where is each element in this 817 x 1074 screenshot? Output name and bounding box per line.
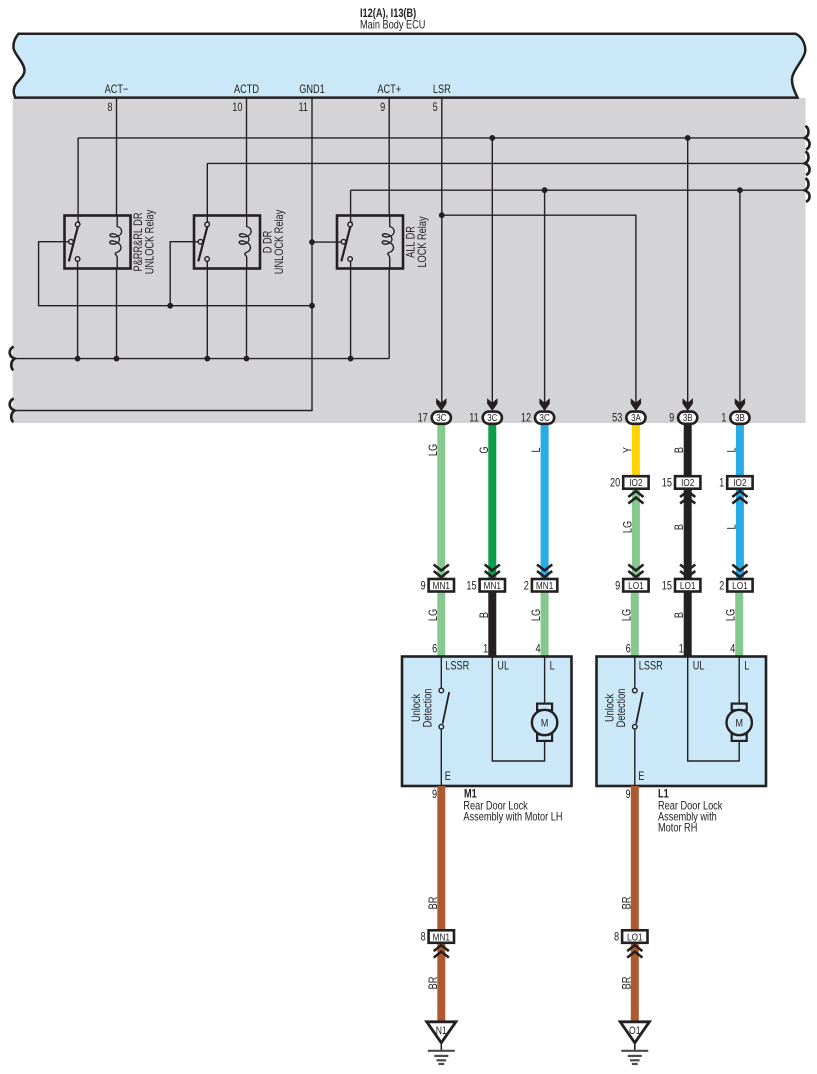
svg-text:3C: 3C bbox=[487, 412, 498, 423]
connector 3A pin 53 bbox=[626, 412, 645, 424]
wire BR from L1 pin9 to LO1-8 bbox=[631, 786, 639, 929]
svg-text:Motor RH: Motor RH bbox=[658, 823, 697, 835]
svg-text:IO2: IO2 bbox=[681, 477, 694, 488]
label Unlock Detection (L1) bbox=[604, 688, 628, 727]
connector IO2 pin 15 bbox=[675, 476, 700, 489]
svg-text:1: 1 bbox=[721, 413, 726, 425]
svg-text:9: 9 bbox=[432, 789, 437, 801]
junction R3 switch / rail bbox=[348, 356, 354, 362]
label for relay P&RR&RL DR UNLOCK Relay bbox=[133, 209, 157, 274]
in-line connector symbol (up) below IO2-15 bbox=[680, 491, 695, 504]
svg-text:8: 8 bbox=[614, 932, 619, 944]
svg-text:LOCK Relay: LOCK Relay bbox=[417, 216, 429, 268]
svg-text:Unlock: Unlock bbox=[411, 693, 423, 722]
svg-text:15: 15 bbox=[662, 580, 672, 592]
svg-text:2: 2 bbox=[524, 580, 529, 592]
arrowhead into connector 3C bbox=[487, 398, 497, 411]
svg-text:UL: UL bbox=[497, 661, 509, 673]
svg-text:17: 17 bbox=[418, 413, 428, 425]
svg-text:UL: UL bbox=[693, 661, 705, 673]
motor M of L1 bbox=[727, 704, 752, 741]
in-line connector symbol (up) below LO1-8 bbox=[627, 945, 642, 958]
ground point O1 bbox=[620, 1022, 649, 1064]
continuation mark at right edge line2 bbox=[805, 151, 810, 175]
continuation mark bottom rail at left edge bbox=[10, 347, 15, 371]
svg-text:L: L bbox=[727, 447, 739, 452]
connector MN1 pin 2 bbox=[532, 579, 557, 592]
svg-text:3A: 3A bbox=[631, 412, 641, 423]
svg-text:1: 1 bbox=[679, 644, 684, 656]
arrowhead into connector 3B bbox=[683, 398, 693, 411]
continuation mark at right edge line3 bbox=[805, 178, 810, 202]
wire UL terminal to motor of M1 bbox=[492, 657, 544, 762]
svg-text:LO1: LO1 bbox=[680, 580, 696, 591]
junction ground rail / GND1 bbox=[309, 303, 315, 309]
junction GND1 / R3 common branch bbox=[309, 239, 315, 245]
connector LO1 pin 15 bbox=[675, 579, 700, 592]
connector 3C pin 12 bbox=[535, 412, 554, 424]
wire L terminal to motor of M1 bbox=[544, 657, 546, 705]
svg-text:L: L bbox=[744, 661, 749, 673]
junction R2 switch / rail bbox=[204, 356, 210, 362]
svg-text:15: 15 bbox=[466, 580, 476, 592]
in-line connector symbol (up) below MN1-8 bbox=[434, 945, 449, 958]
svg-text:ACT+: ACT+ bbox=[377, 84, 401, 96]
wire L from IO2-1 to LO1-2 bbox=[736, 489, 744, 579]
wire LSR pin5 down to connector 3C pin17 bbox=[441, 98, 443, 410]
wire color label LG bbox=[428, 444, 440, 456]
wire R1 coil bottom to rail bbox=[116, 269, 118, 359]
svg-text:L: L bbox=[550, 661, 555, 673]
svg-text:UNLOCK Relay: UNLOCK Relay bbox=[144, 209, 156, 274]
wire color label B bbox=[674, 524, 686, 530]
svg-text:9: 9 bbox=[615, 580, 620, 592]
wire color label B bbox=[479, 612, 491, 618]
junction R1 switch / rail bbox=[75, 356, 81, 362]
svg-text:MN1: MN1 bbox=[433, 931, 450, 942]
svg-text:LO1: LO1 bbox=[628, 580, 644, 591]
continuation mark at right edge line1 bbox=[805, 126, 810, 150]
wire L from 3B-1 to IO2-1 bbox=[736, 424, 744, 476]
svg-text:LSR: LSR bbox=[433, 84, 451, 96]
wire line1 down to connector 3B pin9 bbox=[687, 138, 689, 410]
svg-text:IO2: IO2 bbox=[733, 477, 746, 488]
in-line connector symbol (down) above LO1-2 bbox=[732, 565, 747, 578]
connector MN1 pin 9 bbox=[429, 579, 454, 592]
wire line1 down to connector 3C pin11 bbox=[491, 138, 493, 410]
junction R1 coil / rail bbox=[114, 356, 120, 362]
in-line connector symbol (down) above LO1-15 bbox=[680, 565, 695, 578]
wire color label B bbox=[674, 447, 686, 453]
wire color label LG bbox=[726, 609, 738, 621]
svg-text:IO2: IO2 bbox=[629, 477, 642, 488]
wire line3 down to connector 3B pin1 bbox=[739, 190, 741, 410]
wire B from 3B-9 to IO2-15 bbox=[684, 424, 692, 476]
wire R3 coil bottom to rail end bbox=[388, 269, 390, 359]
svg-text:LG: LG bbox=[621, 609, 633, 621]
svg-text:Assembly with Motor LH: Assembly with Motor LH bbox=[463, 812, 562, 824]
continuation mark GND1 wire at left edge bbox=[10, 398, 15, 422]
in-line connector symbol (down) above MN1-2 bbox=[537, 565, 552, 578]
in-line connector symbol (down) above MN1-15 bbox=[485, 565, 500, 578]
svg-text:6: 6 bbox=[626, 644, 631, 656]
wire GND1 branch to R3 common bbox=[312, 241, 342, 243]
svg-text:Main Body ECU: Main Body ECU bbox=[360, 20, 425, 32]
svg-text:G: G bbox=[479, 446, 491, 453]
svg-text:4: 4 bbox=[535, 644, 540, 656]
svg-text:E: E bbox=[638, 771, 644, 783]
wire color label B bbox=[674, 612, 686, 618]
svg-text:M: M bbox=[541, 718, 548, 730]
arrowhead into connector 3C bbox=[539, 398, 549, 411]
wire LG from MN1-9 to M1 pin6 bbox=[437, 592, 445, 658]
in-line connector symbol (down) above MN1-9 bbox=[434, 565, 449, 578]
connector MN1 pin 15 bbox=[480, 579, 505, 592]
wire ACTD pin10 down to relay R2 coil bbox=[246, 98, 248, 216]
junction LSR branch bbox=[439, 212, 445, 218]
in-line connector symbol (up) below IO2-20 bbox=[628, 491, 643, 504]
svg-text:3B: 3B bbox=[735, 412, 745, 423]
wire color label L bbox=[727, 524, 739, 529]
connector LO1 pin 8 bbox=[622, 930, 647, 943]
svg-text:9: 9 bbox=[625, 789, 630, 801]
wire R3 switch bottom contact to rail bbox=[350, 261, 352, 359]
wire color label G bbox=[479, 446, 491, 453]
wire ACT- pin8 down to relay R1 coil bbox=[116, 98, 118, 216]
wire LSR branch to connector 3A pin53 bbox=[442, 215, 636, 410]
svg-text:LO1: LO1 bbox=[732, 580, 748, 591]
svg-text:L: L bbox=[727, 524, 739, 529]
wire ACT+ pin9 down to relay R3 coil bbox=[388, 98, 390, 216]
ground point N1 bbox=[427, 1022, 456, 1064]
svg-text:O1: O1 bbox=[629, 1025, 641, 1037]
wire B from IO2-15 to LO1-15 bbox=[684, 489, 692, 579]
unlock detection switch of L1 bbox=[633, 657, 643, 787]
wire BR from MN1-8 to ground N1 bbox=[437, 942, 445, 1022]
svg-text:M1: M1 bbox=[464, 789, 477, 801]
wire color label BR bbox=[428, 976, 440, 989]
door lock assembly L1 body bbox=[597, 657, 767, 787]
svg-text:LG: LG bbox=[531, 609, 543, 621]
svg-text:LG: LG bbox=[623, 521, 635, 533]
connector IO2 pin 20 bbox=[623, 476, 648, 489]
wire color label BR bbox=[621, 896, 633, 909]
svg-text:Unlock: Unlock bbox=[604, 693, 616, 722]
svg-text:B: B bbox=[674, 524, 686, 530]
junction line3 / pin1 drop bbox=[737, 187, 743, 193]
motor M of M1 bbox=[532, 704, 557, 741]
svg-text:8: 8 bbox=[420, 932, 425, 944]
unlock detection switch of M1 bbox=[439, 657, 449, 787]
wire R3 switch top contact riser bbox=[350, 190, 352, 222]
door lock assembly M1 body bbox=[402, 657, 572, 787]
connector LO1 pin 9 bbox=[623, 579, 648, 592]
relay D DR UNLOCK Relay bbox=[194, 216, 260, 269]
wire L terminal to motor of L1 bbox=[738, 657, 740, 705]
label Unlock Detection (M1) bbox=[411, 688, 435, 727]
svg-text:ACTD: ACTD bbox=[234, 84, 259, 96]
junction line1 / pin11 drop bbox=[489, 135, 495, 141]
wire color label L bbox=[727, 447, 739, 452]
svg-text:D DR: D DR bbox=[262, 230, 274, 253]
svg-text:P&RR&RL DR: P&RR&RL DR bbox=[133, 212, 145, 271]
svg-text:BR: BR bbox=[621, 896, 633, 909]
in-line connector symbol (up) below IO2-1 bbox=[732, 491, 747, 504]
svg-text:20: 20 bbox=[610, 478, 620, 490]
svg-text:11: 11 bbox=[469, 413, 479, 425]
svg-text:L: L bbox=[531, 447, 543, 452]
wire R1 common to ground rail bbox=[39, 242, 312, 306]
svg-text:3C: 3C bbox=[540, 412, 551, 423]
svg-text:B: B bbox=[674, 447, 686, 453]
wire L from 3C-12 to MN1-2 bbox=[541, 424, 549, 579]
svg-text:Detection: Detection bbox=[422, 688, 434, 727]
wire GND1 pin11 down and left to edge bbox=[13, 98, 312, 411]
label for relay D DR UNLOCK Relay bbox=[262, 209, 286, 274]
node internal circuitry shading (Main Body ECU internals) bbox=[13, 98, 806, 423]
svg-text:9: 9 bbox=[669, 413, 674, 425]
wire BR from M1 pin9 to MN1-8 bbox=[437, 786, 445, 929]
wire R1 switch bottom contact to rail bbox=[77, 261, 79, 359]
svg-text:11: 11 bbox=[298, 102, 308, 114]
svg-text:LG: LG bbox=[428, 609, 440, 621]
wire LG from 3C-17 to MN1-9 bbox=[437, 424, 445, 579]
wire R2 switch top contact riser bbox=[206, 163, 208, 222]
connector 3B pin 9 bbox=[678, 412, 697, 424]
svg-text:L1: L1 bbox=[658, 789, 669, 801]
junction line3 / pin12 drop bbox=[542, 187, 548, 193]
svg-text:MN1: MN1 bbox=[536, 580, 553, 591]
wire R2 coil bottom to rail bbox=[246, 269, 248, 359]
svg-text:9: 9 bbox=[420, 580, 425, 592]
svg-text:6: 6 bbox=[432, 644, 437, 656]
connector 3C pin 17 bbox=[432, 412, 451, 424]
wire horizontal net from R3 switch to right edge bbox=[351, 189, 806, 191]
svg-text:M: M bbox=[735, 718, 742, 730]
wire LG from IO2-20 to LO1-9 bbox=[632, 489, 640, 579]
wire color label Y bbox=[623, 447, 635, 453]
svg-text:UNLOCK Relay: UNLOCK Relay bbox=[274, 209, 286, 274]
svg-text:I12(A), I13(B): I12(A), I13(B) bbox=[360, 8, 416, 20]
wire R2 switch bottom contact to rail bbox=[206, 261, 208, 359]
label for relay ALL DR LOCK Relay bbox=[405, 216, 429, 268]
svg-text:2: 2 bbox=[719, 580, 724, 592]
connector MN1 pin 8 bbox=[429, 930, 454, 943]
wire bottom supply rail bbox=[13, 358, 390, 360]
wire color label L bbox=[531, 447, 543, 452]
svg-text:GND1: GND1 bbox=[299, 84, 325, 96]
wire horizontal net from R1 switch to right edge bbox=[78, 137, 805, 139]
svg-text:15: 15 bbox=[662, 478, 672, 490]
svg-text:1: 1 bbox=[483, 644, 488, 656]
in-line connector symbol (down) above LO1-9 bbox=[628, 565, 643, 578]
svg-text:53: 53 bbox=[612, 413, 622, 425]
svg-text:3C: 3C bbox=[436, 412, 447, 423]
arrowhead into connector 3B bbox=[735, 398, 745, 411]
svg-text:B: B bbox=[674, 612, 686, 618]
svg-text:1: 1 bbox=[719, 478, 724, 490]
svg-text:LG: LG bbox=[428, 444, 440, 456]
wire B from MN1-15 to M1 pin1 bbox=[488, 592, 496, 658]
connector 3C pin 11 bbox=[483, 412, 502, 424]
svg-text:ACT−: ACT− bbox=[105, 84, 129, 96]
connector IO2 pin 1 bbox=[727, 476, 752, 489]
svg-text:B: B bbox=[479, 612, 491, 618]
arrowhead into connector 3C bbox=[436, 398, 446, 411]
wire G from 3C-11 to MN1-15 bbox=[488, 424, 496, 579]
relay ALL DR LOCK Relay bbox=[337, 216, 403, 269]
arrowhead into connector 3A bbox=[631, 398, 641, 411]
wire color label BR bbox=[428, 896, 440, 909]
svg-text:12: 12 bbox=[521, 413, 531, 425]
wire BR from LO1-8 to ground O1 bbox=[631, 942, 639, 1022]
wire LG from LO1-9 to L1 pin6 bbox=[631, 592, 639, 658]
svg-text:Detection: Detection bbox=[616, 688, 628, 727]
wire horizontal net from R2 switch to right edge bbox=[207, 162, 805, 164]
svg-text:9: 9 bbox=[380, 102, 385, 114]
svg-text:Y: Y bbox=[623, 447, 635, 453]
wire color label LG bbox=[623, 521, 635, 533]
wire R2 common drop to ground rail bbox=[170, 242, 199, 306]
svg-text:E: E bbox=[445, 771, 451, 783]
connector 3B pin 1 bbox=[730, 412, 749, 424]
svg-text:10: 10 bbox=[232, 102, 242, 114]
svg-text:LG: LG bbox=[726, 609, 738, 621]
svg-text:LSSR: LSSR bbox=[445, 661, 469, 673]
wire UL terminal to motor of L1 bbox=[688, 657, 740, 762]
wire Y from 3A-53 to IO2-20 bbox=[632, 424, 640, 476]
svg-text:5: 5 bbox=[433, 102, 438, 114]
wire B from LO1-15 to L1 pin1 bbox=[684, 592, 692, 658]
svg-text:8: 8 bbox=[107, 102, 112, 114]
svg-text:MN1: MN1 bbox=[484, 580, 501, 591]
wire R1 switch top contact riser bbox=[77, 138, 79, 222]
svg-text:MN1: MN1 bbox=[433, 580, 450, 591]
junction R2 common / ground rail bbox=[167, 303, 173, 309]
wire color label LG bbox=[621, 609, 633, 621]
svg-text:BR: BR bbox=[428, 976, 440, 989]
wire line3 down to connector 3C pin12 bbox=[544, 190, 546, 410]
svg-text:BR: BR bbox=[428, 896, 440, 909]
wire LG from MN1-2 to M1 pin4 bbox=[541, 592, 549, 658]
wire LG from LO1-2 to L1 pin4 bbox=[735, 592, 743, 658]
wire color label BR bbox=[621, 976, 633, 989]
svg-text:BR: BR bbox=[621, 976, 633, 989]
Main Body ECU block I12(A)/I13(B) bbox=[13, 34, 805, 98]
wire color label LG bbox=[531, 609, 543, 621]
svg-text:3B: 3B bbox=[683, 412, 693, 423]
junction R2 coil / rail bbox=[244, 356, 250, 362]
svg-text:LSSR: LSSR bbox=[639, 661, 663, 673]
connector LO1 pin 2 bbox=[727, 579, 752, 592]
svg-text:N1: N1 bbox=[436, 1025, 447, 1037]
wire color label LG bbox=[428, 609, 440, 621]
svg-text:ALL DR: ALL DR bbox=[405, 226, 417, 258]
svg-text:4: 4 bbox=[730, 644, 735, 656]
junction line1 / pin9 drop bbox=[685, 135, 691, 141]
svg-text:LO1: LO1 bbox=[627, 931, 643, 942]
relay P&RR&RL DR UNLOCK Relay bbox=[65, 216, 131, 269]
